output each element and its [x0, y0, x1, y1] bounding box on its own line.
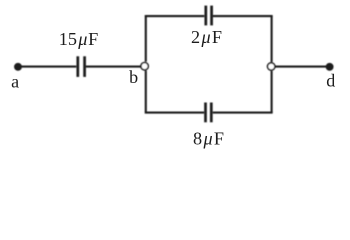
wire a to C1 [21, 66, 77, 68]
wire bottom branch left segment [145, 112, 204, 114]
svg-text:a: a [11, 71, 19, 91]
capacitor C2 2uF left plate [204, 6, 207, 26]
capacitor C1 15uF right plate [83, 56, 86, 77]
wire top branch left segment [145, 15, 205, 17]
capacitor C2 2uF right plate [210, 6, 213, 26]
wire bottom branch right segment [213, 112, 273, 114]
node b [141, 62, 148, 69]
terminal a [15, 64, 22, 71]
svg-text:d: d [326, 71, 335, 91]
node (right, open) [268, 63, 275, 70]
wire right vertical above node [271, 16, 273, 62]
capacitor C3 8uF left plate [204, 103, 207, 123]
wire C1 to node b [86, 66, 141, 68]
capacitor C1 15uF left plate [76, 56, 79, 77]
terminal d [326, 64, 333, 71]
wire right node to d [275, 66, 327, 68]
svg-text:b: b [129, 67, 138, 87]
svg-text:15μF: 15μF [59, 29, 98, 49]
wire right vertical below node [271, 71, 273, 113]
capacitor C3 8uF right plate [210, 103, 213, 123]
svg-text:8μF: 8μF [193, 129, 224, 149]
wire top branch right segment [213, 15, 273, 17]
wire left vertical below node b [145, 71, 147, 113]
svg-text:2μF: 2μF [191, 27, 222, 47]
wire left vertical above node b [145, 16, 147, 62]
